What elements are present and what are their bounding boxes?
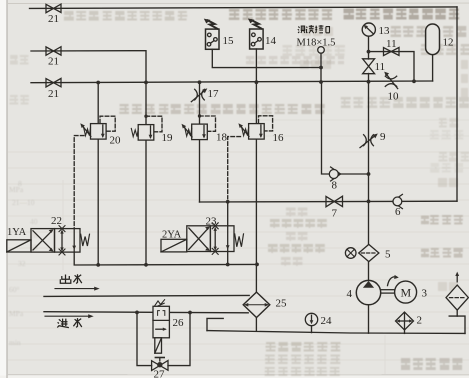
test port circle — [318, 47, 325, 54]
wire valve18 drop to valve7 line — [199, 140, 201, 202]
node out22-valve23 — [226, 263, 230, 267]
label cejiekou test port text — [298, 25, 330, 33]
svg-text:13: 13 — [379, 25, 391, 37]
wire tank right lip — [449, 316, 465, 333]
node rail4-valve20 — [96, 81, 100, 85]
svg-text:21: 21 — [48, 13, 59, 25]
solenoid valve 22 — [7, 226, 90, 255]
svg-text:22: 22 — [51, 215, 62, 227]
check valve 8 — [329, 167, 340, 181]
CHINESE LABELS (hand-drawn strokes) — [57, 25, 329, 328]
shut-off valve 7 — [326, 196, 343, 207]
svg-text:40: 40 — [30, 217, 38, 226]
wire pump column — [368, 82, 370, 244]
wire valve18 drop — [199, 82, 201, 124]
wire outlet water line — [44, 295, 249, 296]
breather filter — [446, 272, 468, 311]
node rail4-testport — [319, 80, 323, 84]
check valve 6 — [392, 194, 402, 208]
svg-text:1YA: 1YA — [7, 227, 27, 238]
filter 5 with indicator — [345, 244, 378, 261]
dashed pilot valve16 loop — [259, 116, 273, 131]
svg-text:14: 14 — [265, 35, 277, 47]
throttle valve 9 — [360, 134, 378, 148]
svg-text:3: 3 — [422, 288, 428, 300]
wire valve20 out — [97, 139, 99, 265]
wire valve27 bypass left — [137, 312, 152, 365]
label jinshui inlet text — [57, 318, 82, 328]
shut-off valve 21b — [46, 47, 61, 56]
svg-text:12: 12 — [443, 37, 454, 49]
node valve19 pilot tap — [144, 115, 147, 118]
svg-text:6: 6 — [395, 206, 401, 218]
throttle valve 10 — [384, 72, 398, 89]
node out22-valve16 — [255, 263, 259, 267]
dashed remote valve20 to valve22 — [74, 136, 84, 229]
wire rail4 main pressure rail — [31, 81, 433, 83]
reducing valve 18 — [182, 124, 208, 140]
svg-text:21: 21 — [48, 56, 59, 68]
svg-text:23: 23 — [206, 216, 218, 228]
dashed remote valve16 to valve23 — [228, 137, 241, 199]
wire line2 — [31, 51, 146, 83]
wire valve23 pilot solid — [227, 202, 229, 226]
outlet arrow — [55, 287, 100, 291]
svg-text:26: 26 — [173, 317, 185, 329]
pressure gauge 24 — [305, 313, 317, 325]
svg-text:17: 17 — [208, 88, 220, 100]
shut-off valve 21a — [46, 4, 61, 13]
wire relay14 drop — [255, 49, 257, 82]
wire valve27 bypass right — [168, 313, 190, 366]
wire valve11 bypass — [369, 52, 415, 82]
shut-off valve 11 vertical — [363, 59, 375, 74]
throttle valve 17 — [191, 88, 207, 101]
dashed pilot valve18 loop — [200, 116, 216, 131]
svg-text:M: M — [401, 286, 412, 300]
svg-text:4: 4 — [347, 288, 353, 300]
node inlet-bypass left — [135, 311, 139, 315]
node rail4-valve19 — [144, 81, 148, 85]
node rail4-acc — [412, 79, 416, 83]
reducing valve 20 — [80, 123, 106, 139]
svg-text:2: 2 — [417, 315, 423, 327]
svg-text:M18×1.5: M18×1.5 — [297, 38, 336, 49]
shut-off valve 21c — [46, 78, 61, 87]
pump 4 — [356, 280, 380, 304]
wire check8 branch — [322, 82, 369, 174]
svg-text:10: 10 — [388, 91, 400, 103]
wire line1 top rail — [30, 7, 458, 8]
water pressure valve 26 — [153, 300, 169, 354]
wire gauge13 drop — [368, 36, 370, 59]
node out22-valve20 — [96, 263, 100, 267]
svg-text:11: 11 — [375, 61, 386, 73]
wire gauge24 stub — [311, 326, 313, 333]
accumulator 12 — [426, 24, 440, 55]
svg-text:24: 24 — [321, 315, 333, 327]
svg-text:7: 7 — [332, 208, 338, 220]
wire valve16 column — [255, 140, 257, 293]
wire breather stub — [456, 310, 458, 316]
svg-text:32: 32 — [18, 259, 26, 268]
pressure relay 14 — [248, 19, 263, 50]
svg-text:MPa: MPa — [9, 309, 24, 318]
svg-text:20: 20 — [110, 135, 122, 147]
node valve18 pilot tap — [198, 114, 201, 117]
wire inlet water line — [44, 311, 153, 314]
svg-text:25: 25 — [276, 298, 288, 310]
svg-text:16: 16 — [273, 132, 285, 144]
node rail4-valve16 — [255, 80, 259, 84]
svg-text:18: 18 — [216, 132, 228, 144]
reducing valve 19 — [131, 125, 154, 141]
svg-text:27: 27 — [154, 369, 166, 378]
svg-text:19: 19 — [162, 132, 174, 144]
svg-text:15: 15 — [223, 35, 235, 47]
node check8 end — [367, 172, 371, 176]
wire filter2 stub — [404, 330, 406, 333]
wire valve19 drop — [145, 82, 147, 124]
node inlet-bypass right — [188, 311, 192, 315]
shut-off valve 11 horizontal — [384, 47, 400, 55]
wire valve16 drop — [255, 82, 257, 123]
wire tank left lip — [207, 318, 223, 330]
svg-text:60°: 60° — [9, 285, 20, 294]
wire filter25 to tank — [255, 317, 257, 331]
node gauge13 split — [367, 50, 371, 54]
motor 3 — [381, 275, 417, 303]
node rail4-pumpcol — [367, 80, 371, 84]
node line3 end — [319, 66, 323, 70]
wire accumulator drop — [432, 55, 434, 82]
inlet arrow — [45, 314, 94, 318]
pressure relay 15 — [204, 19, 219, 50]
label chushui outlet text — [60, 274, 82, 283]
wire valve20 drop — [97, 83, 99, 124]
wire valve23 outlet — [227, 252, 229, 265]
wire pump to tank — [368, 305, 370, 334]
dashed pilot valve19 loop — [146, 116, 162, 132]
node valve7 line cross — [367, 200, 371, 204]
solenoid valve 23 — [161, 223, 244, 255]
wire line3 relay line — [212, 49, 321, 67]
wire valve7 line — [200, 200, 458, 203]
svg-text:8: 8 — [332, 180, 338, 192]
svg-text:8: 8 — [18, 179, 22, 188]
svg-text:min: min — [9, 338, 21, 347]
wire valve22 outlet line — [74, 252, 257, 265]
node valve23 pilot — [226, 200, 230, 204]
wire inlet water line right — [169, 311, 248, 313]
wire tank rail — [207, 331, 465, 334]
svg-text:11: 11 — [386, 38, 397, 50]
reducing valve 16 — [238, 123, 264, 139]
pressure gauge 13 — [362, 23, 375, 36]
svg-text:5: 5 — [385, 249, 391, 261]
wire filter5 to pump — [368, 262, 370, 281]
svg-text:21: 21 — [48, 88, 59, 100]
wire valve19 out — [145, 140, 147, 265]
outlet filter 25 — [243, 292, 270, 317]
wire right rail — [456, 7, 458, 201]
suction filter 2 — [396, 312, 414, 330]
wire valve11 to rail — [368, 74, 370, 83]
svg-text:9: 9 — [380, 131, 386, 143]
globe valve 27 — [152, 358, 168, 371]
wire testport drop — [320, 53, 322, 82]
node rail4-valve18 — [198, 80, 202, 84]
svg-text:21—10: 21—10 — [12, 198, 35, 207]
dashed pilot valve20 loop — [100, 116, 115, 131]
svg-text:2YA: 2YA — [162, 230, 182, 241]
node out22-valve19 — [144, 263, 148, 267]
